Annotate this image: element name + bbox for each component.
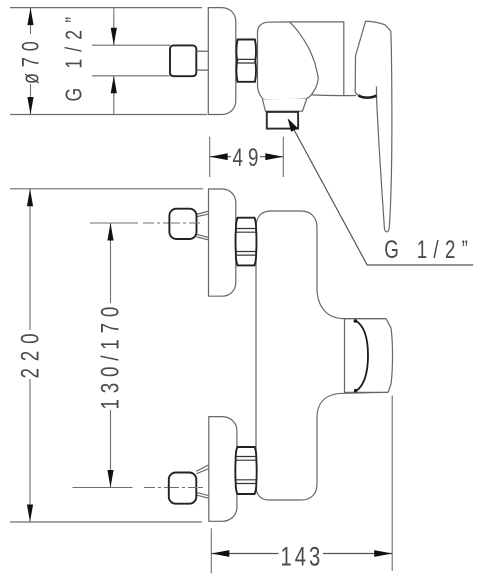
cap corner dots bbox=[354, 319, 358, 323]
extension line 220 bottom bbox=[10, 521, 202, 523]
extension line 130/170 top bbox=[90, 222, 138, 224]
dimension line 220 bbox=[29, 189, 31, 330]
arrow 130/170 down bbox=[107, 470, 113, 488]
union fitting (top view square) bbox=[170, 45, 196, 76]
49 left extension line bbox=[209, 137, 211, 177]
wire: supply pipe top view bbox=[92, 44, 170, 46]
cone lines bottom union bbox=[196, 465, 208, 471]
leader line bbox=[293, 127, 474, 265]
centerline over bottom fitting bbox=[170, 487, 204, 489]
collar under body (top view) bbox=[263, 99, 307, 112]
arrow 220 up bbox=[27, 189, 33, 207]
cap inner edge lines (front view) bbox=[344, 318, 386, 320]
lever blade left edge upper segment (top view) bbox=[375, 86, 377, 96]
49 right extension line bbox=[282, 137, 284, 177]
svg-text:220: 220 bbox=[16, 334, 44, 379]
lever pivot dark arc (top view) bbox=[359, 95, 377, 97]
cap left edge line (front view) bbox=[344, 319, 346, 394]
arrow G1/2 up bbox=[111, 76, 117, 94]
49 dimension line bbox=[210, 156, 231, 158]
dimension line 130/170 bbox=[110, 223, 112, 303]
leader to outlet with G 1/2 label bbox=[288, 118, 474, 265]
cone lines top union bbox=[197, 211, 209, 214]
neck (behind body, top view) bbox=[290, 22, 344, 95]
hex nut bottom (front view) bbox=[235, 447, 256, 494]
mixer body + handle cap silhouette (front view) bbox=[256, 211, 393, 500]
49 arrow left bbox=[210, 153, 228, 160]
handle cap + lever blade (top view) bbox=[355, 21, 392, 232]
cap dome curve (front view) bbox=[356, 321, 369, 391]
extension line top (dia70 upper) bbox=[10, 7, 202, 9]
wall flange (top view) bbox=[208, 8, 236, 115]
extension line bottom (dia70 lower) bbox=[10, 114, 207, 116]
arrow 130/170 up bbox=[107, 223, 113, 241]
wall flange bottom (front view) bbox=[209, 417, 237, 522]
arrow G1/2 down bbox=[111, 28, 117, 46]
union fitting bottom (front view) bbox=[169, 473, 197, 504]
extension line 130/170 bottom bbox=[73, 487, 133, 489]
143 dimension line bbox=[211, 553, 278, 555]
centerline top inlet (dash-dot) bbox=[143, 222, 201, 224]
49 arrow right bbox=[265, 153, 283, 160]
wall flange top (front view) bbox=[209, 189, 236, 296]
143 left extension line bbox=[210, 528, 212, 573]
dimension 49 bbox=[210, 137, 284, 177]
centerline over top fitting bbox=[171, 222, 201, 224]
outlet spout (top view) bbox=[267, 112, 298, 129]
extension line 220 top bbox=[10, 188, 203, 190]
arrow dia70 down bbox=[27, 97, 33, 115]
svg-text:ø70: ø70 bbox=[18, 41, 44, 84]
dimension line dia70 bbox=[30, 8, 32, 34]
union fitting top (front view) bbox=[169, 209, 196, 239]
143 right extension line bbox=[391, 396, 393, 572]
stub pipe to flange bbox=[196, 50, 208, 52]
arrow 220 down bbox=[27, 505, 33, 523]
leader arrowhead bbox=[288, 118, 298, 132]
143 arrow right bbox=[374, 550, 392, 557]
svg-text:143: 143 bbox=[281, 542, 321, 573]
mixer body (top view) bbox=[258, 22, 319, 100]
dimension line G1/2 top view bbox=[113, 8, 115, 46]
hex nut (top view) bbox=[236, 40, 256, 82]
centerline bottom inlet (dash-dot) bbox=[144, 487, 204, 489]
143 arrow left bbox=[211, 550, 229, 557]
dimension 143 bbox=[211, 396, 392, 574]
neck bottom edge (top view) bbox=[305, 94, 356, 95]
hex nut top (front view) bbox=[236, 218, 257, 266]
arrow dia70 up bbox=[27, 8, 33, 26]
